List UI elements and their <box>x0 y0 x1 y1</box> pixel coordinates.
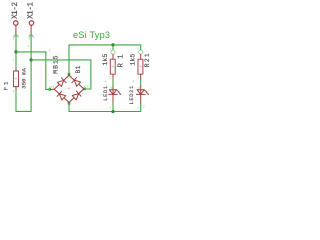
wire X1-2 down to fuse <box>15 36 17 69</box>
diode D-UR of bridge <box>69 75 84 89</box>
wire W1 horizontal <box>16 51 46 53</box>
bridge B1 pad top <box>68 73 71 76</box>
diode D-LR of bridge <box>69 89 84 103</box>
wire branch2 horizontal <box>31 59 91 61</box>
wire R21 to LED21 <box>140 79 142 86</box>
svg-text:2: 2 <box>143 106 145 109</box>
diode D-UL of bridge <box>54 75 69 89</box>
connector X1-1 pad circle <box>29 21 34 26</box>
junction dot node C <box>111 43 114 46</box>
resistor R1 pin ring <box>111 50 115 54</box>
svg-text:R21: R21 <box>144 52 150 67</box>
svg-text:X1-2: X1-2 <box>12 2 20 19</box>
fuse F1 origin cross <box>15 78 17 80</box>
svg-text:-: - <box>66 107 68 110</box>
connector X1-1 pinhead arc <box>29 35 33 37</box>
svg-text:C: C <box>110 107 112 110</box>
svg-text:F1: F1 <box>2 80 9 91</box>
svg-text:1: 1 <box>28 37 30 40</box>
svg-text:350 mA: 350 mA <box>21 68 28 89</box>
svg-text:1: 1 <box>109 48 111 51</box>
resistor R21 top pin <box>140 54 142 59</box>
wire branch2 vertical <box>90 60 92 89</box>
junction dot node B <box>30 58 33 61</box>
svg-text:+: + <box>71 75 73 78</box>
svg-text:B1: B1 <box>75 65 82 73</box>
bridge B1 pad left <box>49 88 52 91</box>
wire U bottom <box>16 110 31 112</box>
svg-text:1k5: 1k5 <box>102 54 109 66</box>
resistor R1 top pin <box>112 54 114 59</box>
connector X1-2 pin line <box>15 25 17 35</box>
LED21 pin through <box>140 86 142 103</box>
svg-text:2: 2 <box>13 90 15 93</box>
svg-text:R1: R1 <box>117 50 125 67</box>
fuse F1 top pin <box>15 69 17 71</box>
svg-text:AC1: AC1 <box>49 86 54 89</box>
connector X1-2 pinhead arc <box>14 35 18 37</box>
resistor R21 pin ring <box>139 50 143 54</box>
svg-text:2: 2 <box>13 37 15 40</box>
wire W1 vertical <box>45 52 47 90</box>
wire fuse bottom down <box>15 90 17 112</box>
resistor R21 body <box>138 59 143 74</box>
resistor R21 origin cross <box>140 66 142 68</box>
svg-text:X1-1: X1-1 <box>28 2 36 19</box>
resistor R1 origin cross <box>112 66 114 68</box>
wire DC plus rail <box>69 44 141 46</box>
connector X1-1 pin line <box>30 25 32 35</box>
svg-text:2: 2 <box>109 76 111 79</box>
wire W1 to bridge AC1 pad <box>46 88 50 90</box>
svg-text:C: C <box>138 107 140 110</box>
bridge B1 pad right <box>83 88 86 91</box>
svg-text:1: 1 <box>137 48 139 51</box>
wire X1-1 down <box>30 36 32 112</box>
bridge B1 pad bottom <box>68 102 71 105</box>
wire LED1 to rail <box>112 103 114 111</box>
wire branch2 to bridge AC2 pad <box>84 88 91 90</box>
LED1 pin through <box>112 86 114 103</box>
svg-text:1: 1 <box>28 45 30 48</box>
diode D-LL of bridge <box>54 89 69 102</box>
bridge B1 pin stubs <box>51 74 84 103</box>
LED1 arrows <box>117 90 121 95</box>
bridge rectifier riser wire <box>68 45 70 75</box>
junction dot node A <box>14 50 17 53</box>
resistor R1 top wire stub <box>112 45 114 50</box>
LED1 triangle and bar <box>109 90 118 95</box>
wire LED21 to rail <box>140 103 142 111</box>
svg-text:LED21: LED21 <box>129 85 135 104</box>
wire R1 to LED1 <box>112 79 114 86</box>
bridge origin cross <box>68 87 70 89</box>
svg-text:1: 1 <box>12 58 14 61</box>
junction dot node D <box>111 110 114 113</box>
LED21 triangle and bar <box>136 90 145 95</box>
fuse F1 body <box>14 71 19 87</box>
svg-text:MB15: MB15 <box>53 54 60 73</box>
svg-text:LED1: LED1 <box>103 85 109 101</box>
resistor R21 top wire corner <box>140 45 142 50</box>
resistor R1 body <box>110 59 115 74</box>
svg-text:2: 2 <box>49 50 51 53</box>
resistor R21 bottom pin <box>140 74 142 79</box>
svg-text:AC2: AC2 <box>84 85 89 88</box>
svg-text:2: 2 <box>137 76 139 79</box>
svg-text:A: A <box>105 81 107 84</box>
svg-text:1k5: 1k5 <box>130 54 137 66</box>
wire DC minus rail <box>69 111 141 113</box>
fuse F1 bottom pin <box>15 87 17 90</box>
resistor R1 bottom pin <box>112 74 114 79</box>
LED21 arrows <box>144 90 148 95</box>
wire bridge bottom to rail <box>68 103 70 111</box>
svg-text:eSi Typ3: eSi Typ3 <box>73 30 110 40</box>
svg-text:A: A <box>133 81 135 84</box>
connector X1-2 pad circle <box>14 21 18 26</box>
